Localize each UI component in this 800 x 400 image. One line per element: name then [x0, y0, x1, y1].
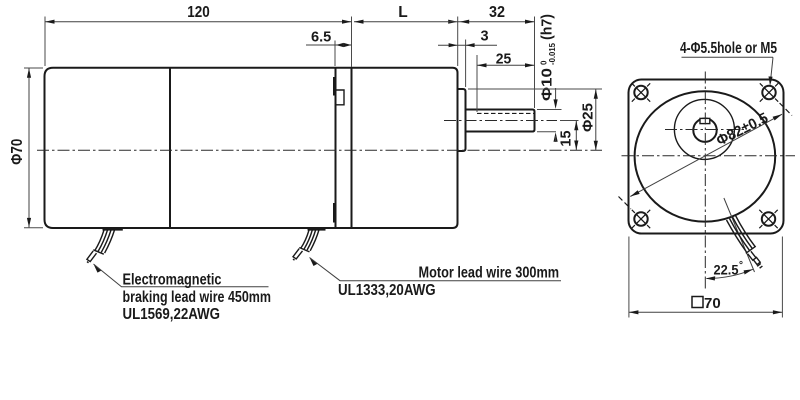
- motor sheath cap: [299, 248, 309, 252]
- joint line A: [335, 69, 337, 228]
- dim L: [448, 20, 458, 24]
- shaft boss: [458, 89, 466, 151]
- front wires: [727, 220, 747, 253]
- ext line body right top: [457, 17, 459, 67]
- horizontal centerline front: [622, 155, 796, 157]
- output shaft: [466, 110, 535, 132]
- svg-text:UL1569,22AWG: UL1569,22AWG: [123, 306, 221, 323]
- dim 3: [465, 40, 467, 88]
- body ellipse: [635, 91, 776, 221]
- body division line: [169, 69, 171, 228]
- brake wire bundle: [95, 230, 104, 251]
- hole BR: [759, 210, 777, 228]
- dim 15: [575, 121, 577, 150]
- svg-text:Φ25: Φ25: [580, 103, 597, 132]
- flange square: [629, 80, 784, 234]
- dim phi70: [28, 68, 30, 227]
- shaft keyway dashed line: [477, 112, 534, 114]
- ext line left edge: [44, 17, 46, 67]
- dim 32: [458, 21, 535, 23]
- svg-text:(h7): (h7): [539, 14, 556, 40]
- hole TL: [632, 83, 650, 101]
- motor wire grommet: [308, 228, 326, 231]
- shaft centerline: [444, 120, 557, 122]
- ext lines phi70: [24, 67, 43, 69]
- svg-text:15: 15: [559, 130, 575, 146]
- dim square70: [628, 237, 630, 318]
- front sheath cap: [746, 246, 756, 253]
- motor body outline: [45, 68, 458, 228]
- dim 25: [476, 55, 478, 112]
- dim phi25: [595, 89, 597, 150]
- brake pigtail: [87, 251, 97, 262]
- svg-text:L: L: [398, 4, 407, 21]
- svg-text:32: 32: [489, 4, 505, 21]
- svg-text:UL1333,20AWG: UL1333,20AWG: [338, 282, 436, 299]
- svg-text:braking lead wire 450mm: braking lead wire 450mm: [123, 289, 272, 306]
- ext shaft top right: [537, 109, 562, 111]
- svg-text:70: 70: [704, 295, 721, 312]
- svg-text:Motor lead wire 300mm: Motor lead wire 300mm: [419, 265, 560, 282]
- square symbol: [692, 297, 703, 308]
- joint line B / extension: [351, 69, 353, 228]
- brake leader arrow: [94, 264, 102, 273]
- body centerline: [37, 149, 602, 151]
- 22.5 ref line: [724, 198, 755, 272]
- svg-text:Φ70: Φ70: [9, 139, 26, 165]
- front pigtail pins: [748, 251, 756, 260]
- hole TR: [760, 83, 792, 115]
- svg-text:120: 120: [187, 4, 210, 21]
- svg-text:4-Φ5.5hole or M5: 4-Φ5.5hole or M5: [680, 40, 777, 57]
- ext shaft bottom right: [537, 131, 556, 133]
- vertical centerline front: [704, 72, 706, 292]
- svg-text:Electromagnetic: Electromagnetic: [123, 272, 222, 289]
- svg-text:°: °: [739, 260, 743, 271]
- ext line joint B top: [351, 17, 353, 68]
- clip bar top: [333, 77, 336, 96]
- label phi10 tolerance (h7): [539, 14, 558, 101]
- dim 6.5: [334, 41, 336, 67]
- svg-text:25: 25: [496, 52, 512, 68]
- gear circle: [674, 99, 734, 159]
- clip bar bottom: [333, 203, 336, 223]
- svg-text:6.5: 6.5: [311, 29, 331, 45]
- motor leader arrow: [310, 258, 318, 267]
- motor wire bundle: [301, 230, 309, 248]
- ext boss top right: [468, 88, 602, 90]
- brake sheath cap: [93, 250, 104, 254]
- hole BL: [619, 197, 651, 229]
- ext line shaft end: [534, 17, 536, 109]
- arc 22.5: [707, 269, 753, 278]
- shaft bore circle: [693, 119, 716, 142]
- svg-text:Φ10: Φ10: [539, 68, 556, 101]
- clip box top: [337, 90, 345, 105]
- svg-text:-0.015: -0.015: [548, 42, 557, 65]
- dim 120: [45, 21, 352, 23]
- brake wire grommet: [103, 228, 123, 231]
- svg-text:22.5: 22.5: [714, 261, 739, 277]
- shaft centerline front: [665, 129, 746, 131]
- keyway: [700, 118, 710, 123]
- dim phi82 diagonal: [630, 114, 782, 196]
- motor pigtail: [293, 249, 303, 259]
- dim phi10 arrows: [555, 88, 557, 104]
- svg-text:3: 3: [480, 29, 488, 45]
- ext shaft center right: [560, 120, 579, 122]
